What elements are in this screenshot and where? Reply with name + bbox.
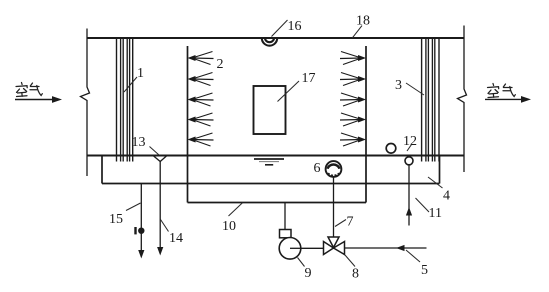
right duct boundary with break symbol: [458, 26, 467, 173]
leader 9: [298, 258, 305, 267]
drain valve symbol: [134, 227, 136, 234]
overflow pipe 14: [159, 162, 161, 251]
air flow arrow right: [485, 98, 522, 100]
svg-text:9: 9: [305, 266, 312, 281]
svg-text:1: 1: [137, 66, 144, 81]
svg-text:14: 14: [169, 231, 183, 246]
leader 4: [428, 177, 443, 188]
leader 13: [150, 147, 160, 156]
float ball 12: [386, 144, 396, 154]
svg-text:18: 18: [356, 13, 370, 28]
leader 8: [345, 255, 355, 267]
tank bottom 4: [102, 183, 440, 185]
tank right wall: [439, 156, 441, 184]
svg-text:16: 16: [288, 19, 302, 34]
left standpipe + deep pan left wall: [187, 46, 189, 203]
right standpipe + deep pan right wall: [365, 46, 367, 203]
tank left wall: [101, 156, 103, 184]
channel bottom line: [87, 155, 464, 157]
svg-text:4: 4: [443, 189, 450, 204]
svg-text:7: 7: [347, 215, 354, 230]
recirculation pipe 7: [333, 177, 335, 237]
marine lamp 16: [262, 38, 277, 46]
leader 16: [272, 20, 288, 37]
leader 18: [352, 26, 362, 38]
leader lines: [124, 20, 443, 267]
leader 15: [126, 203, 141, 211]
casing top line 18: [87, 37, 464, 39]
svg-text:10: 10: [222, 219, 236, 234]
float valve body: [405, 157, 413, 165]
svg-text:3: 3: [395, 78, 402, 93]
air flow arrow left: [15, 99, 53, 101]
leader 17: [278, 81, 300, 102]
svg-text:8: 8: [352, 267, 359, 282]
water level symbol: [254, 158, 284, 160]
svg-text:5: 5: [421, 263, 428, 278]
leader 7: [335, 220, 346, 227]
drain pipe 15: [140, 184, 142, 254]
leader 3: [406, 83, 424, 95]
number labels: [109, 13, 450, 281]
front baffle 1: [117, 38, 133, 162]
deep pan bottom 10: [188, 202, 367, 204]
three-way valve 8: [324, 237, 345, 255]
pump 9: [280, 230, 292, 238]
air label left (kongqi): [16, 83, 42, 97]
pump discharge line: [290, 247, 324, 249]
leader 12: [407, 145, 412, 152]
right nozzle bank: [340, 52, 366, 147]
rear baffle 3: [422, 38, 439, 162]
leader 1: [124, 77, 137, 92]
makeup water pipe 11: [408, 165, 410, 226]
svg-text:12: 12: [403, 134, 417, 149]
chilled water pipe 5: [345, 247, 427, 249]
leader 14: [160, 219, 168, 232]
leader 10: [229, 203, 243, 216]
svg-text:17: 17: [302, 71, 316, 86]
leader 11: [416, 198, 430, 212]
svg-text:6: 6: [314, 161, 321, 176]
svg-text:2: 2: [217, 57, 224, 72]
svg-text:15: 15: [109, 212, 123, 227]
pump suction pipe: [284, 203, 286, 230]
svg-text:13: 13: [132, 135, 146, 150]
left duct boundary with break symbol: [81, 29, 90, 177]
overflow funnel 13: [153, 156, 167, 162]
inspection door 17: [254, 86, 286, 134]
left nozzle bank 2: [188, 52, 214, 147]
strainer 6: [326, 161, 342, 177]
air label right (kongqi): [488, 84, 516, 98]
svg-text:11: 11: [429, 206, 442, 221]
leader 5: [406, 250, 420, 262]
